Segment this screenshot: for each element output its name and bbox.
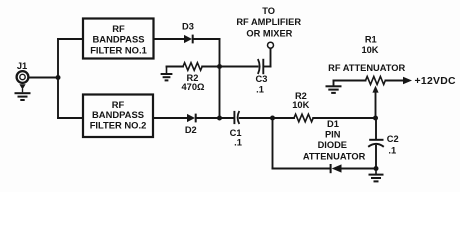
svg-text:.1: .1 [234, 138, 242, 148]
svg-text:OR MIXER: OR MIXER [246, 28, 292, 38]
svg-text:+12VDC: +12VDC [415, 76, 457, 87]
svg-text:PIN: PIN [325, 130, 341, 140]
svg-text:C2: C2 [387, 134, 399, 144]
svg-text:RF AMPLIFIER: RF AMPLIFIER [236, 17, 301, 27]
svg-text:TO: TO [262, 6, 275, 16]
svg-text:C3: C3 [256, 74, 268, 84]
svg-text:ATTENUATOR: ATTENUATOR [303, 151, 366, 161]
svg-text:10K: 10K [361, 45, 378, 55]
svg-text:.1: .1 [256, 85, 264, 95]
svg-text:BANDPASS: BANDPASS [92, 109, 144, 120]
svg-text:FILTER NO.2: FILTER NO.2 [90, 120, 147, 131]
svg-text:R1: R1 [365, 34, 377, 44]
svg-text:470Ω: 470Ω [182, 82, 206, 92]
svg-text:BANDPASS: BANDPASS [93, 34, 145, 45]
svg-text:J1: J1 [17, 61, 27, 71]
svg-text:FILTER NO.1: FILTER NO.1 [90, 44, 147, 55]
svg-text:.1: .1 [388, 146, 396, 156]
svg-text:RF: RF [112, 23, 125, 34]
svg-text:DIODE: DIODE [318, 140, 347, 150]
svg-text:10K: 10K [292, 100, 309, 110]
svg-text:D2: D2 [185, 125, 197, 135]
svg-text:D1: D1 [327, 119, 339, 129]
svg-text:D3: D3 [182, 22, 194, 32]
svg-text:RF ATTENUATOR: RF ATTENUATOR [328, 63, 405, 73]
